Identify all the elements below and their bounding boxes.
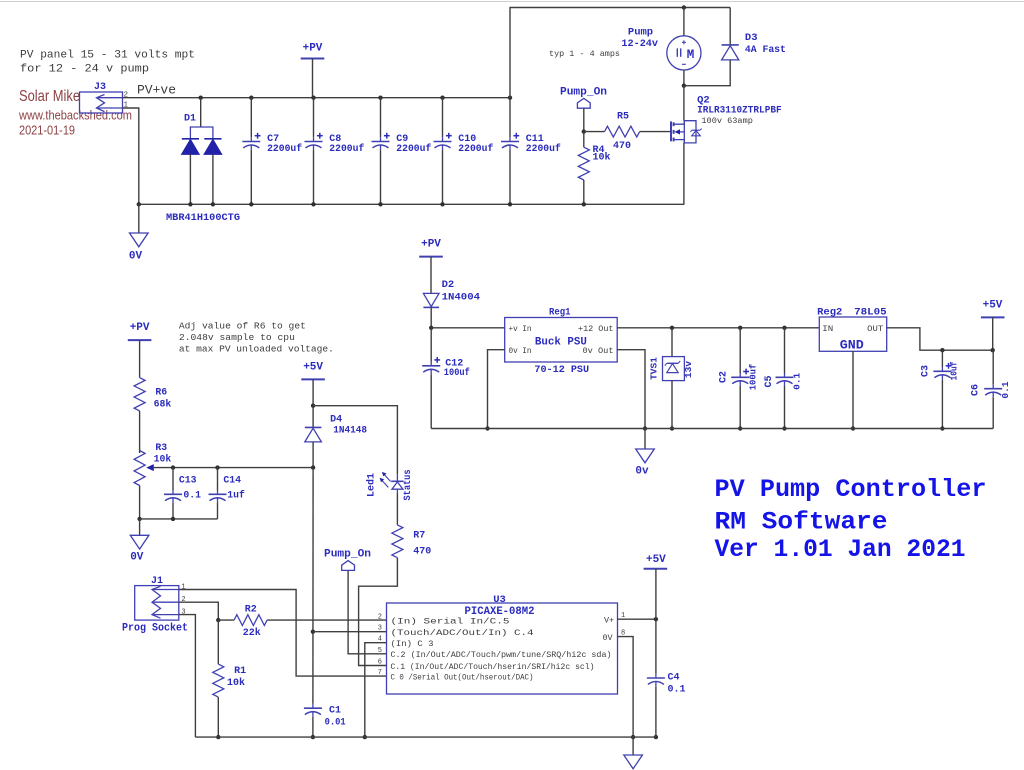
svg-text:M: M xyxy=(687,48,695,62)
wire R3 bottom xyxy=(139,486,141,519)
wire node to R4 xyxy=(583,132,585,148)
label R4 xyxy=(593,145,605,156)
wire Q2 source down xyxy=(683,143,685,204)
svg-text:PV+ve: PV+ve xyxy=(137,84,176,98)
svg-text:PV panel 15 - 31 volts mpt: PV panel 15 - 31 volts mpt xyxy=(20,50,195,62)
junction wiper C14 xyxy=(215,465,219,469)
value Pump 12-24v xyxy=(621,38,658,50)
value TVS1 13v xyxy=(683,361,694,378)
power +5V right xyxy=(644,554,668,619)
wire rail up to pump feed xyxy=(510,8,730,98)
svg-text:U3: U3 xyxy=(493,594,506,606)
pin number 3 of J1 xyxy=(181,609,185,617)
label C1 xyxy=(329,706,341,717)
svg-text:C6: C6 xyxy=(971,384,982,396)
svg-text:+PV: +PV xyxy=(421,238,441,250)
value R2 22k xyxy=(243,627,261,639)
junction C11 top xyxy=(508,96,512,100)
svg-text:4: 4 xyxy=(378,636,382,644)
power +5V PSU xyxy=(981,300,1005,351)
wire C11 upper xyxy=(509,98,511,138)
junction C8 bottom xyxy=(311,202,315,206)
junction R3 bottom xyxy=(137,517,141,521)
note PV panel text line 2 xyxy=(20,64,149,76)
wire D4 lower xyxy=(312,442,314,468)
wire C4 lower xyxy=(655,687,657,738)
value R3 10k xyxy=(154,453,172,464)
svg-text:Adj value of R6 to get: Adj value of R6 to get xyxy=(179,320,306,331)
junction R2 R1 node xyxy=(216,618,220,622)
svg-text:C.1 (In/Out/ADC/Touch/hserin/S: C.1 (In/Out/ADC/Touch/hserin/SRI/hi2c sc… xyxy=(391,662,595,672)
wire C10 upper xyxy=(442,98,444,138)
svg-text:+5V: +5V xyxy=(983,300,1003,312)
svg-text:GND: GND xyxy=(840,339,865,353)
svg-text:3: 3 xyxy=(378,625,382,633)
pin number 2 of J3 xyxy=(124,92,129,100)
note Adj line 3 xyxy=(179,343,334,354)
svg-text:C13: C13 xyxy=(179,475,197,486)
note typ 1 - 4 amps xyxy=(549,49,620,59)
diode D4 xyxy=(305,427,322,442)
label C4 xyxy=(668,672,680,683)
note Adj line 2 xyxy=(179,332,295,343)
diode D1 left half xyxy=(182,139,199,154)
junction Reg2 GND rail xyxy=(851,426,855,430)
svg-text:2200uf: 2200uf xyxy=(458,143,493,155)
wire R3 wiper xyxy=(154,467,313,469)
junction TVS1 rail xyxy=(670,426,674,430)
wire bottom 0v rail xyxy=(195,736,656,738)
plus C3 xyxy=(946,363,952,369)
svg-text:100v 63amp: 100v 63amp xyxy=(701,116,753,126)
junction C4 rail xyxy=(654,735,658,739)
capacitor C13 xyxy=(164,468,182,503)
wire R2 to U3 pin2 xyxy=(267,619,386,621)
wire Reg2 OUT to +5 xyxy=(887,328,994,350)
label 0V xyxy=(129,251,143,263)
svg-text:C14: C14 xyxy=(223,475,241,486)
wire D1 right to rail xyxy=(212,154,214,204)
svg-text:R2: R2 xyxy=(245,604,257,615)
resistor R3 potentiometer xyxy=(134,451,154,486)
wire C9 lower xyxy=(380,150,382,204)
wire R5 to gate xyxy=(640,131,671,133)
ic U3 PICAXE-08M2 box xyxy=(387,603,618,694)
value R5 470 xyxy=(613,141,631,152)
junction C9 bottom xyxy=(378,202,382,206)
junction pump bottom xyxy=(682,84,686,88)
resistor R4 xyxy=(578,147,589,180)
label 0V divider xyxy=(130,552,144,564)
connector J3 label xyxy=(94,82,106,93)
diode D1 right half xyxy=(204,139,221,154)
motor Pump circle xyxy=(667,36,701,70)
label D1 xyxy=(184,114,196,125)
value Led1 Status xyxy=(402,469,413,500)
svg-text:R3: R3 xyxy=(155,442,167,453)
capacitor C4 xyxy=(647,619,665,686)
label R6 xyxy=(155,386,167,397)
wire C12 to 0v rail xyxy=(430,374,432,428)
svg-text:10k: 10k xyxy=(154,453,172,464)
junction 0V pin rail xyxy=(631,735,635,739)
value C14 1uf xyxy=(227,490,245,501)
junction U3 pin3 node xyxy=(311,630,315,634)
wire C5 lower xyxy=(784,386,786,429)
wire D1 left to rail xyxy=(189,154,191,204)
svg-text:70-12 PSU: 70-12 PSU xyxy=(534,364,589,376)
label R2 xyxy=(245,604,257,615)
svg-text:Pump: Pump xyxy=(628,26,653,38)
transistor Q2 channel dashes xyxy=(673,122,675,141)
capacitor C9 xyxy=(372,133,390,150)
junction C13 bottom xyxy=(171,517,175,521)
wire C13 lower xyxy=(172,503,174,519)
author date xyxy=(19,123,75,138)
wire node to R2 xyxy=(218,619,234,621)
transistor Q2 gate bar xyxy=(670,121,672,141)
wire R6 to R3 xyxy=(139,411,141,453)
label R1 xyxy=(234,666,246,677)
value C10 2200uf xyxy=(458,143,493,155)
power +5V over D4 xyxy=(301,361,325,405)
label 0V PSU xyxy=(635,466,649,478)
pin number 1 of J1 xyxy=(181,584,185,592)
svg-text:+5V: +5V xyxy=(646,554,666,566)
label MBR41H100CTG xyxy=(166,212,240,224)
junction Reg1 0v In rail xyxy=(485,426,489,430)
junction C3 rail xyxy=(940,426,944,430)
wire D4 upper xyxy=(312,406,314,428)
wire PSU 0v rail xyxy=(431,428,993,430)
svg-text:+v In: +v In xyxy=(509,325,532,334)
power +PV top xyxy=(301,43,325,98)
wire U3 pin4 to ground xyxy=(365,643,387,737)
label D4 xyxy=(330,414,342,425)
capacitor C8 xyxy=(305,133,323,150)
wire C1 lower xyxy=(312,717,314,737)
wire C7 lower xyxy=(250,150,252,204)
junction C2 top xyxy=(738,326,742,330)
value C4 0.1 xyxy=(668,684,686,695)
svg-text:100uf: 100uf xyxy=(748,363,759,390)
capacitor C10 xyxy=(434,133,452,150)
title line 3 xyxy=(715,535,966,564)
svg-text:Reg1: Reg1 xyxy=(549,307,571,319)
diode D3 xyxy=(722,45,739,60)
svg-text:D3: D3 xyxy=(745,32,758,44)
title line 2 xyxy=(715,507,888,536)
junction C10 bottom xyxy=(440,202,444,206)
led Led1 xyxy=(391,474,403,493)
wire C9 upper xyxy=(380,98,382,138)
label C7 xyxy=(267,134,279,145)
svg-text:C 0 /Serial Out(Out/hserout/DA: C 0 /Serial Out(Out/hserout/DAC) xyxy=(391,672,534,682)
wire U3 pin3 stub xyxy=(313,631,387,633)
junction at J3 drop / 0V rail xyxy=(137,202,141,206)
junction C10 top xyxy=(440,96,444,100)
note Adj line 1 xyxy=(179,320,306,331)
svg-text:(Touch/ADC/Out/In) C.4: (Touch/ADC/Out/In) C.4 xyxy=(391,628,534,638)
label R7 xyxy=(413,530,425,541)
transistor Q2 arrow stub xyxy=(674,129,684,134)
svg-text:2.048v sample to cpu: 2.048v sample to cpu xyxy=(179,332,295,343)
svg-text:2200uf: 2200uf xyxy=(526,143,561,155)
svg-text:6: 6 xyxy=(378,659,382,667)
value Reg1 70-12 PSU xyxy=(534,364,589,376)
value C11 2200uf xyxy=(526,143,561,155)
value R7 470 xyxy=(413,546,431,557)
svg-text:0v In: 0v In xyxy=(509,347,532,356)
svg-text:0V: 0V xyxy=(129,251,143,263)
svg-text:C4: C4 xyxy=(668,672,680,683)
svg-text:R1: R1 xyxy=(234,666,246,677)
wire C13 C14 bottom xyxy=(140,518,218,520)
pin number 7 of U3 xyxy=(378,669,382,677)
wire C8 upper xyxy=(313,98,315,138)
svg-text:+5V: +5V xyxy=(303,361,323,373)
wire Reg1 0v Out xyxy=(617,350,645,429)
capacitor C12 xyxy=(422,328,440,375)
svg-text:+12 Out: +12 Out xyxy=(578,325,614,334)
svg-text:68k: 68k xyxy=(154,399,172,410)
svg-text:10k: 10k xyxy=(227,677,245,689)
wire pump bottom xyxy=(683,70,685,86)
svg-text:at max PV unloaded voltage.: at max PV unloaded voltage. xyxy=(179,343,334,354)
wire D3 bottom to pump node xyxy=(684,60,730,86)
wire C6 lower xyxy=(992,397,994,428)
junction C7 bottom xyxy=(249,202,253,206)
svg-text:(In) C 3: (In) C 3 xyxy=(391,639,434,649)
label D2 xyxy=(442,279,455,291)
svg-text:Status: Status xyxy=(402,469,413,500)
value R4 10k xyxy=(593,152,611,164)
label Reg2 xyxy=(817,307,842,319)
svg-text:RM Software: RM Software xyxy=(715,507,888,536)
label TVS1 xyxy=(649,357,660,380)
wire node to R5 xyxy=(584,131,605,133)
ground 0V divider xyxy=(130,519,149,549)
junction D1 top xyxy=(199,96,203,100)
svg-text:2021-01-19: 2021-01-19 xyxy=(19,123,75,138)
wire pump node to Q2 drain xyxy=(683,86,685,121)
svg-text:78L05: 78L05 xyxy=(854,307,887,319)
svg-text:for 12 - 24 v pump: for 12 - 24 v pump xyxy=(20,64,149,76)
value C7 2200uf xyxy=(267,143,302,155)
junction C1 rail xyxy=(311,735,315,739)
svg-text:R7: R7 xyxy=(413,530,425,541)
wire U3 0V pin to rail xyxy=(618,637,634,738)
wire U3 V+ to +5V xyxy=(618,618,656,620)
title line 1 xyxy=(715,475,987,504)
svg-text:2200uf: 2200uf xyxy=(396,143,431,155)
wire TVS1 upper xyxy=(671,328,673,357)
wire C7 upper xyxy=(250,98,252,138)
svg-text:100uf: 100uf xyxy=(444,367,470,379)
svg-text:C5: C5 xyxy=(764,375,775,387)
value C8 2200uf xyxy=(329,143,364,155)
capacitor C11 xyxy=(501,133,519,150)
svg-text:+PV: +PV xyxy=(303,43,323,55)
svg-text:0v Out: 0v Out xyxy=(583,347,614,356)
pin number 6 of U3 xyxy=(378,659,382,667)
wire +12 rail xyxy=(617,327,819,329)
svg-text:13v: 13v xyxy=(683,361,694,378)
value D3 4A Fast xyxy=(745,44,786,56)
wire C14 lower xyxy=(217,503,219,519)
svg-text:IN: IN xyxy=(822,325,833,334)
label C12 xyxy=(445,359,463,370)
pin number 2 of U3 xyxy=(378,613,382,621)
svg-text:0V: 0V xyxy=(602,633,612,643)
svg-text:D1: D1 xyxy=(184,114,196,125)
wire C11 lower xyxy=(509,150,511,204)
wire J3 pin1 to 0V rail xyxy=(123,108,139,204)
capacitor C7 xyxy=(242,133,260,150)
value C6 0.1 xyxy=(1000,381,1011,398)
junction pump top xyxy=(682,5,686,9)
svg-text:7: 7 xyxy=(378,669,382,677)
value C1 0.01 xyxy=(325,717,346,728)
svg-text:C3: C3 xyxy=(921,365,932,377)
svg-text:470: 470 xyxy=(413,546,431,557)
value C13 0.1 xyxy=(183,490,201,501)
svg-text:0.1: 0.1 xyxy=(1000,381,1011,398)
value C12 100uf xyxy=(444,367,470,379)
ground 0V bottom right xyxy=(624,737,643,769)
svg-text:OUT: OUT xyxy=(867,325,883,334)
label D3 xyxy=(745,32,758,44)
wire R1 to rail xyxy=(217,697,219,737)
value C2 100uf xyxy=(748,363,759,390)
junction D4 wiper node xyxy=(311,465,315,469)
svg-text:typ 1 - 4 amps: typ 1 - 4 amps xyxy=(549,49,620,59)
junction C2 rail xyxy=(738,426,742,430)
resistor R6 xyxy=(134,378,145,411)
author website xyxy=(18,108,132,123)
svg-text:Prog Socket: Prog Socket xyxy=(122,623,188,635)
junction V+ node xyxy=(654,617,658,621)
wire D2 to +12 node xyxy=(430,308,432,328)
wire R4 to rail xyxy=(583,180,585,204)
wire C8 lower xyxy=(313,150,315,204)
ground 0V below rail xyxy=(130,204,149,247)
wire D3 top xyxy=(729,8,731,45)
junction R5 R4 node xyxy=(582,129,586,133)
svg-text:C2: C2 xyxy=(719,371,730,383)
label Pump xyxy=(628,26,653,38)
svg-text:D2: D2 xyxy=(442,279,455,291)
wire C2 lower xyxy=(739,386,741,429)
svg-text:10k: 10k xyxy=(593,152,611,164)
junction wiper C13 xyxy=(171,465,175,469)
svg-text:J3: J3 xyxy=(94,82,106,93)
junction TVS1 top xyxy=(670,326,674,330)
svg-text:Pump_On: Pump_On xyxy=(560,86,607,98)
wire R7 to pin6 route xyxy=(359,558,398,666)
label C5 xyxy=(764,375,775,387)
label C14 xyxy=(223,475,241,486)
pin number 5 of U3 xyxy=(378,647,382,655)
svg-text:PV Pump Controller: PV Pump Controller xyxy=(715,475,987,504)
svg-text:Pump_On: Pump_On xyxy=(324,548,371,560)
value C3 10uf xyxy=(949,361,960,380)
wire C3 lower xyxy=(941,380,943,429)
label C11 xyxy=(526,134,544,145)
svg-text:10uf: 10uf xyxy=(949,361,960,380)
svg-text:470: 470 xyxy=(613,141,631,152)
label C8 xyxy=(329,134,341,145)
note Q2 100v 63amp xyxy=(701,116,753,126)
pin number 8 of U3 xyxy=(621,630,625,638)
junction +5V node xyxy=(991,348,995,352)
wire J1 pin1 to U3 pin7 xyxy=(179,590,387,677)
pin number 1 of U3 xyxy=(621,612,625,620)
resistor R2 xyxy=(234,615,267,626)
svg-text:(In) Serial In/C.5: (In) Serial In/C.5 xyxy=(391,617,510,627)
svg-text:1N4148: 1N4148 xyxy=(333,425,367,436)
author Solar Mike xyxy=(19,88,80,105)
label R5 xyxy=(617,112,629,123)
junction D1 left rail xyxy=(188,202,192,206)
label C6 xyxy=(971,384,982,396)
junction R1 rail xyxy=(216,735,220,739)
wire D1 anchor xyxy=(200,98,202,127)
svg-text:12-24v: 12-24v xyxy=(621,38,658,50)
svg-text:MBR41H100CTG: MBR41H100CTG xyxy=(166,212,240,224)
svg-text:22k: 22k xyxy=(243,627,261,639)
capacitor C3 xyxy=(933,350,951,380)
junction pin4 rail xyxy=(363,735,367,739)
regulator Reg1 buck PSU box xyxy=(505,318,618,363)
note PV panel text line 1 xyxy=(20,50,195,62)
value C9 2200uf xyxy=(396,143,431,155)
svg-text:V+: V+ xyxy=(604,615,614,625)
svg-text:C.2 (In/Out/ADC/Touch/pwm/tune: C.2 (In/Out/ADC/Touch/pwm/tune/SRQ/hi2c … xyxy=(391,650,612,660)
junction C7 top xyxy=(249,96,253,100)
svg-text:0.1: 0.1 xyxy=(668,684,686,695)
wire Led1 to R7 xyxy=(396,494,398,525)
svg-text:1uf: 1uf xyxy=(227,490,245,501)
value C5 0.1 xyxy=(792,372,803,389)
svg-text:0.1: 0.1 xyxy=(183,490,201,501)
svg-text:2200uf: 2200uf xyxy=(267,143,302,155)
transistor Q2 body diode loop xyxy=(684,121,696,143)
capacitor C5 xyxy=(776,328,794,386)
wire wiper node down to C1 xyxy=(312,468,314,704)
svg-text:Reg2: Reg2 xyxy=(817,307,842,319)
svg-text:Solar Mike: Solar Mike xyxy=(19,88,80,105)
junction C11 bottom xyxy=(508,202,512,206)
resistor R7 xyxy=(392,525,403,558)
value Reg2 78L05 xyxy=(854,307,887,319)
svg-text:D4: D4 xyxy=(330,414,342,425)
net label PV+ve xyxy=(137,84,176,98)
svg-text:0v: 0v xyxy=(635,466,649,478)
label C9 xyxy=(396,134,408,145)
wire Reg1 0v In return xyxy=(488,350,505,429)
label U3 xyxy=(493,594,506,606)
wire PV+ve rail xyxy=(123,97,511,99)
svg-text:5: 5 xyxy=(378,647,382,655)
junction C12 top xyxy=(429,326,433,330)
svg-text:R6: R6 xyxy=(155,386,167,397)
pin number 4 of U3 xyxy=(378,636,382,644)
value D4 1N4148 xyxy=(333,425,367,436)
svg-text:4A Fast: 4A Fast xyxy=(745,44,786,56)
resistor R1 xyxy=(213,620,224,697)
svg-text:0V: 0V xyxy=(130,552,144,564)
